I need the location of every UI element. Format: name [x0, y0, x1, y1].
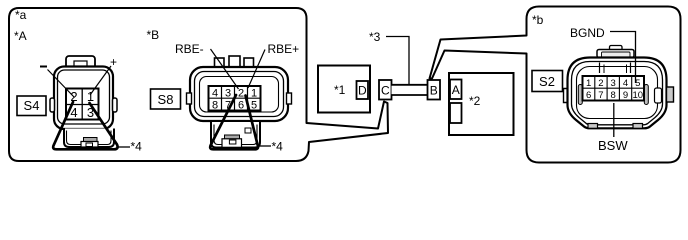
S8 label box — [151, 89, 181, 109]
svg-text:RBE+: RBE+ — [268, 42, 300, 56]
S4 left ear — [50, 98, 55, 112]
S4 right ear — [113, 98, 118, 112]
svg-text:*b: *b — [532, 13, 544, 27]
svg-text:7: 7 — [598, 90, 603, 101]
svg-text:4: 4 — [623, 78, 628, 89]
svg-text:C: C — [381, 84, 390, 98]
svg-text:RBE-: RBE- — [175, 42, 204, 56]
empty box below A — [450, 103, 462, 123]
svg-text:BGND: BGND — [570, 26, 605, 40]
S2 left ear — [564, 89, 568, 103]
callout box *b (right rounded rect with pointer to B) — [430, 7, 681, 163]
S8 lock tab gray — [225, 135, 240, 139]
box B — [428, 80, 441, 100]
box A — [450, 80, 462, 100]
svg-text:2: 2 — [598, 78, 603, 89]
svg-text:S2: S2 — [539, 74, 555, 89]
S8 right ear — [287, 93, 292, 104]
plus leader wire — [90, 66, 111, 95]
cable between C and B — [392, 85, 428, 96]
box *1 — [318, 66, 370, 113]
svg-text:*B: *B — [147, 28, 160, 42]
svg-text:S4: S4 — [24, 98, 40, 113]
S8 boot (lower body) — [211, 122, 260, 148]
svg-text:6: 6 — [238, 100, 244, 112]
svg-text:*A: *A — [14, 29, 27, 43]
box C — [379, 80, 392, 100]
minus leader wire — [48, 70, 75, 98]
S2 label box — [532, 71, 563, 92]
svg-text:S8: S8 — [158, 92, 174, 107]
RBE+ leader wire — [248, 50, 265, 89]
svg-text:5: 5 — [251, 100, 257, 112]
RBE- leader wire — [211, 49, 239, 89]
svg-text:2: 2 — [238, 88, 244, 100]
box D — [357, 81, 369, 99]
label *4 (S8) with leader — [259, 145, 271, 147]
svg-text:D: D — [358, 84, 367, 98]
triangle *4 (S4) — [53, 102, 117, 149]
callout box *a (left rounded rect with pointer to C) — [9, 8, 388, 161]
svg-text:*1: *1 — [334, 83, 346, 97]
svg-text:6: 6 — [586, 90, 591, 101]
svg-text:3: 3 — [225, 88, 231, 100]
S2 latch block — [600, 63, 631, 74]
S4 body outer — [54, 67, 113, 130]
svg-text:8: 8 — [212, 100, 218, 112]
S2 feet — [588, 124, 598, 129]
minus label — [40, 66, 47, 68]
svg-text:B: B — [430, 84, 438, 98]
S2 left latch bar — [578, 85, 582, 105]
svg-text:4: 4 — [212, 88, 218, 100]
S4 lock tab gray — [84, 138, 98, 142]
S2 body outer — [568, 58, 667, 129]
S2 right ear — [667, 87, 674, 102]
svg-text:*4: *4 — [131, 140, 143, 154]
S8 pin box — [209, 86, 261, 111]
S4 pin box — [66, 89, 99, 120]
label *4 (S4) with leader — [119, 146, 131, 148]
S8 left ear — [187, 93, 192, 104]
svg-text:BSW: BSW — [598, 138, 628, 153]
S2 body inner outline 2 — [577, 67, 658, 119]
svg-text:*a: *a — [15, 8, 27, 22]
svg-text:3: 3 — [611, 78, 616, 89]
svg-text:10: 10 — [633, 90, 644, 101]
S4 label box — [17, 96, 46, 116]
S2 top tabs — [610, 46, 623, 52]
svg-text:*4: *4 — [272, 140, 284, 154]
S2 body inner outline 1 — [572, 62, 663, 125]
S8 top tabs — [215, 58, 225, 68]
S2 right latch bar — [644, 85, 648, 105]
svg-text:1: 1 — [586, 78, 591, 89]
svg-text:1: 1 — [251, 88, 257, 100]
S4 top tab — [66, 56, 95, 70]
S4 body inner outline — [58, 70, 110, 124]
svg-text:*3: *3 — [369, 30, 381, 44]
box *2 — [449, 73, 514, 135]
S8 body outer — [190, 67, 288, 121]
S2 pin box — [583, 76, 645, 101]
S8 body inner outlines — [195, 72, 284, 117]
svg-text:A: A — [452, 83, 460, 97]
svg-text:*2: *2 — [469, 94, 481, 108]
svg-text:8: 8 — [611, 90, 616, 101]
label BSW with leader — [613, 103, 615, 137]
svg-text:9: 9 — [623, 90, 628, 101]
S2 right keyway bump — [655, 88, 662, 103]
triangle *4 (S8) — [210, 95, 258, 149]
S4 boot (lower body) — [64, 129, 114, 148]
